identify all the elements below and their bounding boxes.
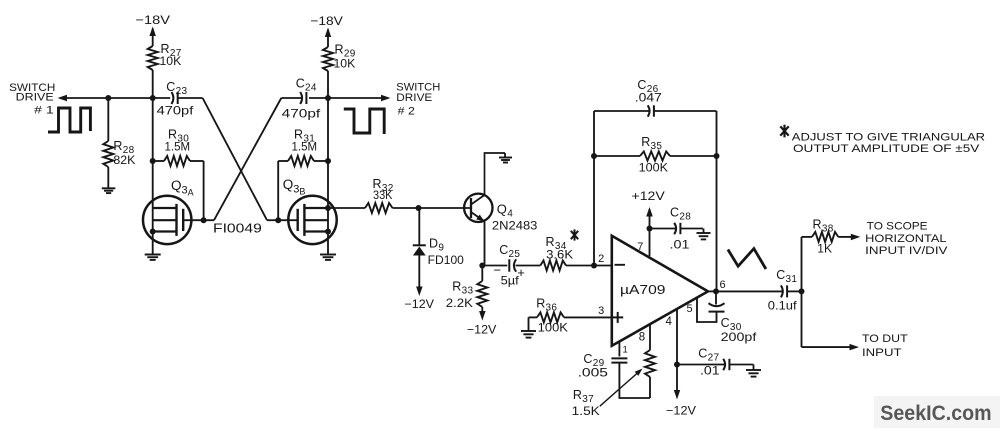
wire R27 to node1 [152,70,154,98]
svg-text:8: 8 [639,332,645,344]
svg-text:# 1: # 1 [34,105,54,117]
node junction node7 [799,288,805,294]
svg-text:0.1uf: 0.1uf [768,299,798,313]
wire R30 right to gate node [190,161,204,220]
label C27 .01 [698,347,719,378]
wire feedback right vertical [716,111,718,291]
wire Q3B source/drain rail [327,161,329,254]
node junction R35 right [714,153,720,159]
node junction node6 (output) [713,288,719,294]
label SWITCH DRIVE #1 [9,82,55,117]
resistor R36 [537,312,564,322]
wire node5 to op-amp pin 2 [594,265,612,267]
svg-text:5: 5 [687,303,693,315]
svg-text:1: 1 [623,345,628,356]
capacitor C27 [723,359,729,370]
node junction Q3A source [150,229,156,235]
arrow +12V [646,207,653,217]
label R34 3.6K [546,229,579,261]
svg-text:INPUT IV/DIV: INPUT IV/DIV [865,245,948,257]
waveform triangle output [728,249,766,269]
label Q4 2N2483 [492,202,538,233]
label C25 5uf [499,243,520,288]
node junction pin7/C28 [647,226,653,232]
note adjust asterisk [780,125,985,155]
op-amp U1 uA709 triangle [612,236,708,346]
ground under Q3B [320,255,336,260]
label FI0049 [213,221,262,236]
wire R36 to pin 3 [564,316,612,318]
transistor Q3A body circle [143,196,191,244]
resistor R33 [477,266,487,308]
transistor Q4 base bar [470,198,472,218]
label C31 0.1uf [768,268,798,313]
wire C28 to ground [681,228,703,230]
wire Q3B drain to R32 [328,207,365,209]
wire R35 right [670,155,717,157]
label R32 33K [373,177,394,202]
svg-text:5µf: 5µf [501,274,520,288]
svg-text:1.5M: 1.5M [165,140,191,154]
wire pin 8 stub [649,324,651,350]
node junction Q3B source [325,229,331,235]
wire pin 4 [676,309,678,392]
ground under Q3A [145,255,161,260]
wire down to R28 [107,98,109,141]
arrow switch drive 1 [58,95,68,101]
label pin 2 [598,253,604,265]
ground Q4 collector [499,153,512,163]
wire R33 to -12V arrow [481,307,483,314]
arrow to DUT [850,344,860,351]
svg-text:−18V: −18V [135,13,170,27]
wire C26 top right [654,110,716,112]
wire C26 top left [594,110,649,112]
wire D9 to -12V arrow [418,256,420,290]
arrow pin4 -12V [674,390,680,400]
svg-text:33K: 33K [373,188,393,202]
capacitor C23 [172,92,178,104]
capacitor C25 (electrolytic) [494,259,525,280]
wire R31 left to gate node [278,161,288,220]
svg-text:OUTPUT AMPLITUDE OF ±5V: OUTPUT AMPLITUDE OF ±5V [793,143,980,155]
label R27 10K [160,42,182,68]
svg-text:−12V: −12V [467,323,497,337]
wire diagonal A (C23 to Q3B gate) [203,98,279,220]
svg-text:−12V: −12V [666,404,696,418]
wire C24 to cross diagonal B [281,97,301,99]
node junction Q3B gate [275,217,281,223]
node junction R28 tap [105,95,111,101]
node junction R30 left [150,158,156,164]
label C23 470pf [157,80,195,118]
arrow D9 -12V [416,287,423,297]
label R33 2.2K [446,280,474,311]
wire C29 bottom to R37 bottom [619,363,650,398]
svg-text:2N2483: 2N2483 [492,219,538,233]
svg-text:470pf: 470pf [157,104,195,118]
wire Q3A source/drain rail [152,161,154,254]
wire op-amp output [708,290,716,292]
wire output to C31 [716,290,782,292]
svg-text:100K: 100K [538,321,568,335]
wire C31 to node7 [787,290,801,292]
label R35 100K [639,135,668,175]
node junction pin4/C27 [674,362,680,368]
wire node1 to C23 [153,97,171,99]
svg-text:ADJUST TO GIVE TRIANGULAR: ADJUST TO GIVE TRIANGULAR [792,132,985,144]
wire C30 to pin 5 [697,298,717,322]
power -12V (pin 4) [666,404,696,418]
svg-text:1K: 1K [817,242,832,256]
wire pin 7 [649,209,651,256]
wire left rail node1 to Q3A [152,98,154,161]
resistor R37 [645,350,655,398]
wire R29 to node2 [327,71,329,98]
capacitor C31 [781,285,787,297]
svg-text:82K: 82K [113,153,135,167]
svg-text:100K: 100K [639,161,668,175]
svg-text:7: 7 [637,241,643,253]
ground R36 [521,317,536,337]
label R30 1.5M [165,128,191,154]
svg-text:FI0049: FI0049 [213,221,262,236]
svg-text:1.5K: 1.5K [572,404,600,418]
label R28 82K [113,139,135,167]
node junction Q3B drain [325,205,331,211]
arrow to scope [851,234,861,241]
label C30 200pf [721,316,758,344]
svg-text:10K: 10K [334,57,356,71]
transistor Q4 collector [471,153,505,205]
power -12V (D9) [405,297,435,311]
wire right rail node2 to Q3B [327,98,329,161]
svg-text:SeekIC.com: SeekIC.com [880,402,991,425]
waveform square wave 1 [48,108,90,132]
svg-text:# 2: # 2 [398,106,415,118]
wire node4 to C25 [482,265,507,267]
svg-text:470pf: 470pf [282,107,321,121]
label C26 .047 [635,78,662,105]
wire node7 to R38 [802,236,813,238]
node junction node4 (Q4 emitter) [479,263,485,269]
wire pin 1 stub [618,342,620,357]
resistor R38 [812,232,838,242]
label R29 10K [334,43,356,71]
capacitor C24 [300,92,306,104]
label SWITCH DRIVE #2 [396,82,440,118]
label R31 1.5M [292,128,318,154]
node junction node1 (R27/C23) [150,95,156,101]
ground under R28 [102,188,116,193]
svg-text:+12V: +12V [632,189,665,203]
svg-text:3: 3 [598,305,604,317]
label pin 7 [637,241,643,253]
node junction Q3A gate [201,217,207,223]
capacitor C29 [611,358,627,362]
wire R31 right stub [314,160,328,162]
wire ground to R36 [529,316,538,318]
wire R35 left [594,155,640,157]
wire R38 to scope arrow [838,236,852,238]
ground C28 [697,229,711,240]
resistor R30 [164,156,190,166]
resistor R27 [148,46,158,70]
label R36 100K [536,297,568,335]
power -18V supply (right) [310,14,343,47]
transistor Q3B internal [298,204,328,236]
wire node6 to C30 [715,291,717,304]
label R38 1K [813,218,834,256]
svg-text:3.6K: 3.6K [546,248,573,262]
label R37 1.5K [572,388,600,418]
svg-text:6: 6 [720,279,726,291]
svg-text:4: 4 [666,316,673,328]
svg-text:TO SCOPE: TO SCOPE [867,221,928,233]
svg-text:.01: .01 [670,238,690,252]
wire C25 to R34 [516,265,541,267]
arrow switch drive 2 [381,95,391,101]
wire node7 to DUT arrow [802,346,852,348]
wire R32 to node3 [393,207,419,209]
svg-text:HORIZONTAL: HORIZONTAL [865,233,946,245]
arrow R37 pointer [600,369,643,407]
resistor R28 [103,141,113,167]
svg-text:.047: .047 [635,91,662,105]
wire R34 to node5 [566,265,594,267]
svg-text:1.5M: 1.5M [292,140,318,154]
label pin 8 [639,332,645,344]
wire diagonal B (C24 to Q3A gate) [204,98,282,220]
wire R28 to ground [107,167,109,188]
label TO SCOPE HORIZONTAL INPUT [865,221,948,258]
arrow R33 -12V [479,311,486,321]
svg-text:DRIVE: DRIVE [396,92,432,104]
wire node7 vertical [801,237,803,347]
svg-text:.005: .005 [578,366,609,380]
svg-text:µA709: µA709 [620,282,666,297]
label C28 .01 [670,206,692,252]
label C29 .005 [578,352,609,380]
wire node2 to switch drive 2 arrow [328,97,382,99]
label pin 3 [598,305,604,317]
node junction node5 (pin2/feedback) [591,263,597,269]
label Q3B [283,177,306,197]
resistor R34 [540,261,566,271]
label pin 1 [623,345,628,356]
svg-text:10K: 10K [160,54,182,68]
capacitor C26 [648,105,654,116]
transistor Q4 emitter [471,212,485,266]
label C24 470pf [282,77,321,121]
svg-text:−12V: −12V [405,297,435,311]
transistor Q4 body circle [464,194,492,222]
watermark SeekIC.com [874,396,1000,428]
power -18V supply (left) [135,13,170,46]
wire Q3A gate lead [183,219,203,221]
wire node3 to Q4 base [419,207,472,209]
node junction R35 left [591,153,597,159]
svg-text:200pf: 200pf [721,330,758,344]
wire C24 to node2 [309,97,328,99]
label pin 6 [720,279,726,291]
ground C27 [746,365,761,377]
svg-text:−18V: −18V [310,14,343,28]
svg-text:INPUT: INPUT [862,347,902,359]
svg-text:2.2K: 2.2K [446,296,473,310]
wire pin7 node to C28 [650,228,676,230]
capacitor C28 [674,223,680,234]
svg-text:2: 2 [598,253,604,265]
node junction R31 right [325,158,331,164]
wire feedback left vertical [593,111,595,266]
svg-text:FD100: FD100 [428,253,465,267]
label TO DUT INPUT [862,333,908,359]
wire C27 to ground [730,364,754,366]
resistor R35 [640,151,670,160]
power +12V [632,189,665,203]
capacitor C30 [709,303,725,311]
wire node3 to D9 [418,208,420,246]
svg-text:TO DUT: TO DUT [862,333,908,345]
wire C23 to cross diagonal A [178,97,203,99]
svg-text:.01: .01 [700,364,720,378]
wire Q3B gate lead [278,219,298,221]
resistor R32 [365,203,393,213]
node junction node3 (D9/Q4 base) [416,205,422,211]
transistor Q3A internal [153,204,184,236]
label pin 4 [666,316,673,328]
label D9 FD100 [428,237,465,268]
transistor Q3B body circle [288,196,336,244]
resistor R31 [288,156,314,166]
power -12V (R33) [467,323,497,337]
diode D9 [413,245,426,255]
resistor R29 [323,47,333,71]
label pin 5 [687,303,693,315]
node junction node2 (R29/C24) [325,95,331,101]
wire R30 left stub [153,160,164,162]
label Q3A [171,178,194,198]
svg-text:DRIVE: DRIVE [16,92,54,104]
wire pin4 node to C27 [677,364,724,366]
wire node1 to switch drive 1 arrow [65,97,153,99]
waveform square wave 2 [344,109,384,134]
